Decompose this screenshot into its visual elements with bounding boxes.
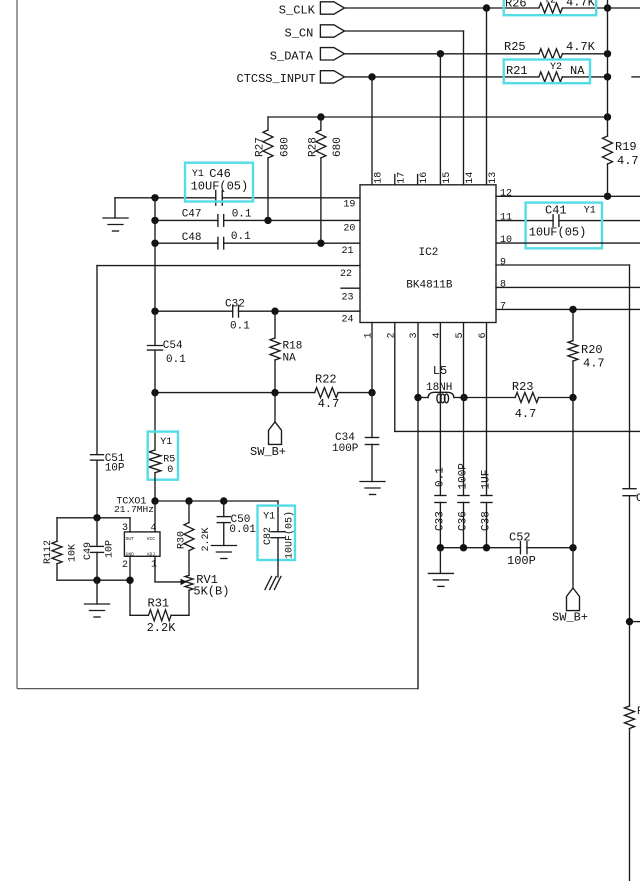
node pin12 bus (604, 193, 611, 200)
svg-text:22: 22 (340, 269, 352, 280)
svg-text:10UF(05): 10UF(05) (529, 225, 587, 239)
svg-text:Y1: Y1 (263, 512, 275, 523)
svg-text:16: 16 (419, 172, 430, 184)
svg-text:C82: C82 (263, 527, 274, 545)
svg-text:R27: R27 (255, 137, 267, 157)
ground at C46 (103, 198, 128, 231)
svg-text:0.1: 0.1 (434, 467, 446, 487)
pin 18 label (374, 172, 385, 184)
wire lower rail (395, 430, 640, 432)
wire pin9 column lower (629, 729, 631, 881)
capacitor C50 (217, 514, 256, 536)
wire pin11 row (496, 220, 640, 222)
wire R23 right (539, 397, 573, 399)
node pin19 left column (151, 194, 158, 201)
svg-text:10P: 10P (105, 540, 116, 558)
svg-text:2.2K: 2.2K (201, 527, 212, 551)
wire right bus (607, 0, 609, 136)
wire pin4 column (439, 323, 441, 496)
svg-text:8: 8 (500, 280, 506, 291)
wire right edge stub (632, 76, 640, 78)
capacitor C52 (507, 531, 536, 568)
node C52 right (569, 544, 576, 551)
resistor R20 (568, 309, 605, 397)
wire R20 column lower (572, 398, 574, 548)
wire C51 bottom (96, 460, 98, 518)
wire TCXO pin2 (122, 556, 130, 615)
resistor R23 (512, 380, 539, 421)
resistor R25 (504, 40, 596, 59)
highlight box C41 (526, 203, 602, 249)
pin 5 label (455, 332, 466, 338)
node TCXO rail R30 (185, 497, 192, 504)
wire TCXO pin3 (122, 518, 130, 534)
svg-text:C41: C41 (545, 203, 567, 217)
svg-text:R5: R5 (163, 455, 175, 466)
svg-text:R28: R28 (308, 137, 320, 157)
highlight box R26 (504, 0, 597, 15)
svg-text:Y1: Y1 (192, 169, 204, 180)
capacitor C54 (148, 340, 187, 366)
ground at C50 (211, 546, 236, 559)
wire C33 bottom (439, 503, 441, 548)
ground below C33 (428, 548, 453, 587)
node R27 bottom (264, 217, 271, 224)
svg-text:14: 14 (465, 172, 476, 184)
wire edge stub (630, 621, 640, 623)
svg-text:C: C (636, 493, 640, 505)
pin 11 label (500, 213, 512, 224)
svg-text:9: 9 (500, 257, 506, 268)
highlight box C46 (185, 163, 253, 202)
svg-text:2.2K: 2.2K (147, 621, 177, 635)
svg-text:S_CN: S_CN (285, 27, 314, 41)
capacitor C49 (83, 540, 116, 560)
wire TCXO pin4 (151, 501, 157, 534)
svg-text:Y1: Y1 (160, 437, 172, 448)
svg-text:CTCSS_INPUT: CTCSS_INPUT (237, 72, 316, 86)
wire pin21 row (155, 242, 360, 244)
svg-text:1: 1 (151, 560, 157, 571)
wire pin1 column (371, 323, 373, 438)
svg-text:4: 4 (151, 523, 157, 534)
wire pin20 row (155, 219, 360, 221)
node TCXO rail C50 (220, 497, 227, 504)
highlight box R5 (148, 432, 178, 480)
svg-text:C47: C47 (182, 209, 202, 221)
wire R30 top (188, 501, 190, 523)
svg-text:1UF: 1UF (481, 470, 493, 490)
svg-text:4.7: 4.7 (583, 357, 605, 371)
capacitor C46 (191, 167, 249, 205)
port CTCSS_INPUT (237, 71, 345, 86)
wire R22 row left (155, 392, 315, 394)
resistor R18 (270, 311, 302, 392)
svg-text:C54: C54 (163, 340, 183, 352)
capacitor C32 (225, 299, 250, 333)
wire S_CLK row (344, 7, 640, 9)
node R18 bottom SW_B+ (271, 389, 278, 396)
svg-text:4.7: 4.7 (617, 154, 639, 168)
svg-text:5: 5 (455, 332, 466, 338)
svg-text:100P: 100P (507, 554, 536, 568)
wire R31 row right (171, 614, 189, 616)
pin 15 label (442, 172, 453, 184)
svg-text:S_CLK: S_CLK (279, 4, 316, 18)
pin 16 label (419, 172, 430, 184)
svg-text:OUT: OUT (126, 536, 135, 542)
svg-text:R19: R19 (615, 140, 637, 154)
node pin21 left column (151, 240, 158, 247)
svg-text:SW_B+: SW_B+ (552, 611, 588, 625)
node edge junction (626, 618, 633, 625)
svg-text:0: 0 (167, 465, 173, 476)
svg-text:11: 11 (500, 213, 512, 224)
resistor R27 (255, 117, 292, 220)
node R22 right pin1 (368, 389, 375, 396)
pin 6 label (478, 332, 489, 338)
wire C52 row left (440, 547, 520, 549)
node TCXO rail R5 (151, 497, 158, 504)
node C36 bottom (460, 544, 467, 551)
wire pin9 column upper (629, 265, 631, 489)
pin 1 label (364, 332, 375, 338)
node C33 bottom (437, 544, 444, 551)
svg-text:R21: R21 (506, 64, 528, 78)
wire S_CN row (344, 30, 463, 32)
node C38 bottom (483, 544, 490, 551)
svg-text:C52: C52 (509, 531, 531, 545)
svg-text:R22: R22 (315, 372, 337, 386)
wire pin3 column (417, 323, 419, 689)
svg-text:R18: R18 (283, 340, 303, 352)
pin 14 label (465, 172, 476, 184)
ground at C34 (360, 482, 385, 495)
svg-text:2: 2 (122, 560, 128, 571)
port S_CN (285, 25, 345, 41)
svg-text:21: 21 (342, 246, 354, 257)
pin 8 label (500, 280, 506, 291)
svg-text:0.1: 0.1 (166, 354, 186, 366)
node R22 left (151, 389, 158, 396)
svg-text:100P: 100P (332, 443, 359, 455)
svg-text:24: 24 (342, 314, 354, 325)
wire C38 bottom (486, 503, 488, 548)
svg-text:15: 15 (442, 172, 453, 184)
wire L5 to R23 (464, 397, 515, 399)
wire R5 bottom (154, 473, 156, 501)
svg-text:19: 19 (343, 200, 355, 211)
svg-text:10: 10 (500, 235, 512, 246)
wire C34 to ground (371, 445, 373, 482)
resistor R edge (625, 706, 640, 729)
svg-text:4.7K: 4.7K (566, 40, 596, 54)
highlight box C82 (258, 506, 296, 560)
op-amp U1 IC2 BK4811B body (360, 185, 496, 323)
svg-text:680: 680 (332, 137, 344, 157)
wire R19 bottom (607, 164, 609, 196)
wire pin18 column (371, 77, 373, 185)
pin 7 label (500, 301, 506, 312)
wire pin17 stub (394, 175, 396, 185)
ground at C49 (85, 580, 110, 617)
svg-text:1: 1 (364, 332, 375, 338)
svg-text:4.7: 4.7 (318, 397, 340, 411)
wire left column upper (154, 198, 156, 346)
wire pin15 column (439, 54, 441, 185)
wire left column mid (154, 350, 156, 450)
wire pin22 row (97, 265, 360, 267)
wire pin14 column (463, 31, 465, 185)
svg-text:20: 20 (343, 224, 355, 235)
wire pin23 stub (341, 287, 360, 289)
wire pin16 stub (417, 175, 419, 185)
wire R112 bottom row (57, 579, 130, 581)
capacitor C38 (481, 470, 493, 531)
pin 21 label (342, 246, 354, 257)
resistor R30 (177, 523, 213, 552)
capacitor C34 (332, 432, 379, 455)
node R28 bottom (317, 240, 324, 247)
power SW_B+ tag 1 (250, 393, 286, 459)
wire R31 row left (130, 614, 148, 616)
wire pin19 row (115, 197, 360, 199)
node R28 top (317, 113, 324, 120)
wire left frame vertical (16, 0, 18, 689)
svg-text:5K(B): 5K(B) (193, 584, 229, 598)
capacitor C47 (182, 209, 252, 227)
svg-text:R25: R25 (504, 40, 526, 54)
wire R22 row right (338, 392, 372, 394)
capacitor C33 (434, 467, 446, 531)
svg-text:23: 23 (342, 293, 354, 304)
wire pin7 row (496, 308, 640, 310)
port S_DATA (270, 48, 345, 64)
chassis ground at C82 (265, 577, 281, 590)
svg-text:4.7K: 4.7K (566, 0, 596, 10)
svg-text:4: 4 (432, 332, 443, 338)
svg-text:R26: R26 (505, 0, 527, 11)
svg-text:C49: C49 (83, 542, 94, 560)
resistor R31 (147, 596, 177, 634)
pin 17 label (396, 172, 407, 184)
node TCXO pin2 row (126, 577, 133, 584)
resistor R5 (149, 437, 175, 476)
pin 10 label (500, 235, 512, 246)
wire pin5 column (463, 323, 465, 496)
wire C50 bottom (223, 523, 225, 546)
node pin7 R20 top (569, 306, 576, 313)
capacitor C edge (623, 489, 640, 505)
pin 12 label (500, 188, 512, 199)
wire R27 R28 top rail (268, 116, 608, 118)
wire R112 top row (57, 517, 130, 519)
svg-text:NA: NA (570, 64, 585, 78)
svg-text:10P: 10P (105, 462, 125, 474)
svg-text:IC2: IC2 (419, 247, 439, 259)
node L5 left (414, 394, 421, 401)
node S_DATA bus (604, 50, 611, 57)
node CTCSS to pin18 (368, 73, 375, 80)
node C49 top (93, 514, 100, 521)
capacitor C36 (458, 463, 470, 531)
svg-text:R31: R31 (148, 596, 170, 610)
svg-text:0.1: 0.1 (231, 231, 251, 243)
wire pin10 row (496, 242, 640, 244)
pin 3 label (409, 332, 420, 338)
wire R30 to RV1 (188, 551, 190, 576)
svg-text:21.7MHz: 21.7MHz (114, 504, 154, 515)
wire pin2 column (394, 323, 396, 432)
svg-text:C32: C32 (225, 299, 245, 311)
svg-text:NA: NA (283, 353, 297, 365)
resistor R112 (43, 518, 79, 580)
resistor R19 (603, 136, 639, 168)
pin 13 label (488, 172, 499, 184)
wire CTCSS row (344, 76, 607, 78)
wire bottom frame horizontal (17, 688, 418, 690)
pin 19 label (343, 200, 355, 211)
wire pin24 row C32 (155, 310, 360, 312)
wire C36 bottom (463, 503, 465, 548)
capacitor C41 (529, 203, 596, 239)
node rail bus (604, 113, 611, 120)
node S_CLK to pin13 (483, 4, 490, 11)
wire pin9 column mid (629, 496, 631, 706)
pin 22 label (340, 269, 352, 280)
capacitor C51 (91, 453, 125, 474)
node CTCSS bus (604, 73, 611, 80)
svg-text:6: 6 (478, 332, 489, 338)
power SW_B+ tag 2 (552, 548, 588, 625)
wire C82 bottom (277, 538, 279, 577)
inductor L5 (418, 364, 464, 403)
svg-text:13: 13 (488, 172, 499, 184)
svg-text:R30: R30 (177, 531, 188, 549)
node S_CLK bus (604, 4, 611, 11)
svg-text:18: 18 (374, 172, 385, 184)
wire pin6 column (486, 323, 488, 496)
pin 24 label (342, 314, 354, 325)
svg-text:0.01: 0.01 (229, 524, 256, 536)
wire TCXO rail (114, 497, 278, 515)
svg-text:0.1: 0.1 (232, 209, 252, 221)
svg-text:R20: R20 (581, 343, 603, 357)
svg-text:C48: C48 (182, 232, 202, 244)
svg-text:VCC: VCC (147, 536, 156, 542)
svg-text:680: 680 (280, 137, 292, 157)
svg-text:ADJ: ADJ (147, 551, 156, 557)
node L5 right pin5 (460, 394, 467, 401)
svg-text:2: 2 (386, 332, 397, 338)
resistor R22 (315, 372, 340, 411)
resistor R28 (308, 117, 345, 243)
svg-text:12: 12 (500, 188, 512, 199)
wire pin8 row (496, 286, 640, 288)
pin 20 label (343, 224, 355, 235)
node C49 bottom (93, 577, 100, 584)
svg-text:S_DATA: S_DATA (270, 49, 314, 63)
svg-text:3: 3 (122, 523, 128, 534)
svg-text:10K: 10K (68, 544, 79, 562)
svg-text:17: 17 (396, 172, 407, 184)
svg-text:SW_B+: SW_B+ (250, 445, 286, 459)
svg-text:100P: 100P (458, 463, 470, 490)
resistor R26 (505, 0, 596, 13)
pin 2 label (386, 332, 397, 338)
wire RV1 bottom (188, 590, 190, 615)
wire pin9 row (496, 264, 630, 266)
svg-text:Y1: Y1 (584, 206, 596, 217)
svg-text:Y2: Y2 (550, 62, 562, 73)
svg-text:10UF(05): 10UF(05) (284, 511, 296, 559)
wire pin13 column (486, 8, 488, 185)
node C32 right R18 top (271, 308, 278, 315)
wire TCXO pin1 (151, 556, 157, 582)
node S_DATA to pin15 (437, 50, 444, 57)
svg-text:7: 7 (500, 301, 506, 312)
svg-text:R23: R23 (512, 380, 534, 394)
wire pin22 column (96, 266, 98, 455)
pin 23 label (342, 293, 354, 304)
wire pin12 row (496, 195, 640, 197)
svg-text:4.7: 4.7 (515, 407, 537, 421)
wire C52 row right (527, 547, 573, 549)
node pin20 left column (151, 217, 158, 224)
svg-text:10UF(05): 10UF(05) (191, 180, 249, 194)
capacitor C82 (263, 511, 296, 559)
wire C82 top (277, 501, 279, 532)
svg-text:18NH: 18NH (426, 382, 452, 394)
svg-text:R112: R112 (43, 540, 54, 564)
svg-text:0.1: 0.1 (230, 321, 250, 333)
wire C50 top (223, 501, 225, 517)
node R23 right (569, 394, 576, 401)
crystal oscillator TCXO1 body (124, 532, 160, 558)
pin 9 label (500, 257, 506, 268)
wire C49 column (96, 518, 98, 580)
port S_CLK (279, 2, 345, 18)
svg-text:BK4811B: BK4811B (406, 280, 453, 292)
resistor R21 (506, 62, 585, 82)
node C32 left (151, 308, 158, 315)
capacitor C48 (182, 231, 251, 249)
potentiometer RV1 (155, 573, 229, 598)
pin 4 label (432, 332, 443, 338)
highlight box R21 (504, 60, 590, 84)
wire S_DATA row (344, 53, 607, 55)
svg-text:Y2: Y2 (544, 0, 556, 7)
